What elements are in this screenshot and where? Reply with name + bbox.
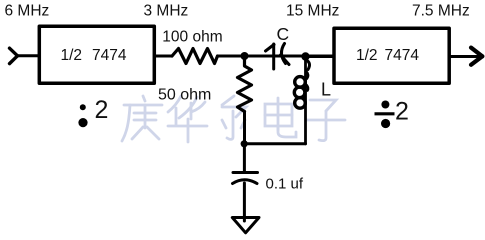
wire node D to capacitor C2 <box>243 144 246 171</box>
divide-by-2 symbol under U1 (two dots) <box>78 104 87 127</box>
capacitor C (drawn plates over wire) <box>266 44 290 70</box>
wire C2 to ground <box>243 183 246 221</box>
svg-text:0.1 uf: 0.1 uf <box>266 176 304 193</box>
wire input to U1 <box>17 54 39 57</box>
wire bottom of tank: node D to L bottom <box>244 142 305 145</box>
watermark text (light blue CJK, drawn as strokes) <box>122 96 345 142</box>
wire R1 to node A <box>218 55 245 58</box>
svg-text:C: C <box>277 24 290 44</box>
svg-text:50 ohm: 50 ohm <box>158 87 211 104</box>
node B junction dot <box>301 52 309 60</box>
svg-text:1/2: 1/2 <box>61 47 83 64</box>
svg-text:7474: 7474 <box>385 47 420 64</box>
char 3 er <box>222 96 234 105</box>
op-amp U1 box (1/2 7474 flip-flop) <box>39 26 154 83</box>
wire R2 to node D <box>243 112 246 144</box>
svg-text:2: 2 <box>95 96 109 124</box>
ground <box>232 218 259 233</box>
svg-text:3 MHz: 3 MHz <box>144 3 189 20</box>
svg-text:15 MHz: 15 MHz <box>286 3 339 20</box>
char 5 zi <box>310 100 336 111</box>
wire node A to capacitor C <box>245 55 333 58</box>
resistor R1 100 ohm <box>172 49 218 64</box>
wire node B to U2 <box>306 55 335 58</box>
inductor L <box>294 57 309 144</box>
wire U1 to resistor R1 <box>156 55 172 58</box>
node A junction dot <box>241 52 249 60</box>
op-amp U2 box (1/2 7474 flip-flop) <box>334 28 449 83</box>
svg-text:6 MHz: 6 MHz <box>5 3 50 20</box>
svg-text:1/2: 1/2 <box>356 47 378 64</box>
resistor R2 50 ohm (vertical) <box>238 56 252 112</box>
capacitor C2 0.1 uf <box>233 173 258 184</box>
char 4 dian <box>265 104 292 126</box>
svg-text:7474: 7474 <box>92 47 127 64</box>
svg-text:2: 2 <box>395 97 409 125</box>
svg-text:100 ohm: 100 ohm <box>162 29 222 46</box>
node D junction dot <box>241 140 248 147</box>
wire U2 to output <box>449 55 480 58</box>
char 1 kang <box>143 96 145 101</box>
char 2 hua <box>168 96 181 112</box>
svg-text:L: L <box>321 80 331 100</box>
divide symbol under U2 <box>375 101 395 129</box>
input arrow <box>10 48 18 63</box>
svg-text:7.5 MHz: 7.5 MHz <box>412 3 470 20</box>
output arrow <box>471 48 482 65</box>
